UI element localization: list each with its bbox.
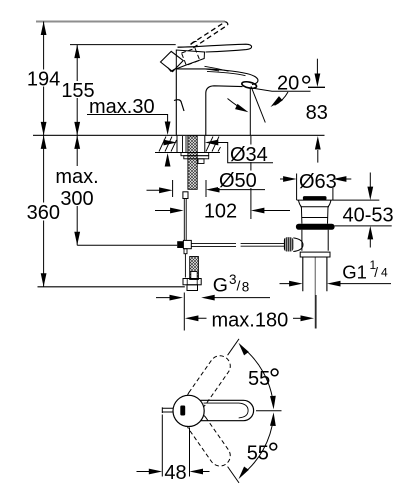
degree ring for upper 55	[271, 369, 278, 376]
label Ø63	[298, 171, 337, 193]
rubber seal washer (dark)	[296, 224, 335, 230]
dashed lever position down 55	[183, 409, 234, 470]
raised lever (dashed)	[191, 22, 228, 48]
pop-up rod to drain: clevis cross	[177, 241, 183, 248]
spout axis extension below deck	[250, 136, 252, 219]
upper axis extension line	[228, 339, 239, 355]
horizontal axis line right	[256, 410, 282, 412]
counter deck bottom line	[155, 152, 220, 154]
max.180 right arrow	[293, 317, 309, 319]
svg-text:8: 8	[242, 280, 250, 295]
dimension 40-53 reference lines	[333, 200, 392, 226]
svg-text:Ø34: Ø34	[230, 144, 268, 166]
pop-up plug cap (dark)	[303, 196, 327, 200]
max.30 underline and leader arrow to deck	[87, 115, 168, 126]
dimension 194 vertical line	[43, 22, 45, 136]
spout stub plan	[162, 408, 173, 412]
handle lever blade (solid, horizontal)	[178, 44, 252, 52]
dimension 155 vertical line	[76, 45, 78, 136]
coupling nut	[300, 252, 330, 257]
handle pivot body	[176, 47, 204, 69]
dimension 102 right extension and arrow	[257, 210, 291, 212]
360 bottom reference line	[38, 286, 185, 288]
svg-text:Ø50: Ø50	[219, 170, 257, 192]
mounting spacer lines left of shank	[183, 136, 187, 153]
threaded shank below deck	[188, 136, 197, 190]
degree ring for 20	[303, 76, 310, 83]
label max. 300	[54, 166, 101, 210]
max.180 left arrow	[190, 317, 207, 319]
handle base tilted square (solid)	[161, 51, 184, 71]
83 dimension bottom arrow	[317, 150, 319, 163]
svg-text:max.: max.	[55, 166, 98, 188]
G3/8 underline	[206, 297, 270, 299]
dimension G1 1/4 arrows	[280, 283, 298, 285]
svg-text:194: 194	[27, 68, 60, 90]
waste flange	[297, 200, 333, 224]
hole edge lines in counter	[177, 135, 205, 152]
dimension 102 left arrow	[155, 210, 179, 212]
dimension G3/8 arrows	[156, 297, 178, 299]
svg-text:G: G	[213, 275, 228, 297]
svg-text:/: /	[237, 278, 241, 294]
48 right arrow	[195, 471, 210, 473]
mounting washer	[181, 153, 209, 156]
knurled adjuster knob	[284, 237, 293, 251]
mounting nut	[184, 156, 209, 159]
tailpipe center line	[314, 258, 316, 329]
svg-text:300: 300	[60, 188, 93, 210]
handle base tilted square (dashed, raised position)	[182, 48, 200, 65]
svg-text:55: 55	[247, 443, 269, 465]
svg-text:G1: G1	[342, 262, 367, 283]
svg-text:55: 55	[248, 368, 270, 390]
deck hatching right	[206, 137, 221, 152]
lever blade plan view	[191, 400, 254, 420]
flexible supply hose (braided)	[190, 257, 199, 280]
water stream angle line	[251, 86, 265, 122]
svg-text:3: 3	[229, 272, 237, 287]
rod lower end	[184, 254, 186, 278]
label 48	[164, 462, 187, 485]
lower axis extension line	[228, 467, 239, 483]
spout aerator	[241, 81, 257, 90]
Ø63 arrows	[280, 178, 292, 180]
dimension max.180 extension lines	[184, 293, 316, 331]
pop-up rod clevis top	[183, 192, 188, 199]
hose nut	[183, 279, 201, 285]
20-degree reference line from spout tip	[252, 88, 311, 91]
pop-up rod	[184, 199, 186, 241]
faucet body outline	[176, 69, 242, 135]
40-53 top arrow	[369, 173, 371, 189]
deck hatching left	[159, 137, 177, 152]
svg-text:/: /	[374, 265, 378, 280]
spout top parallel edge	[207, 71, 246, 75]
upper 55 arc	[241, 347, 273, 405]
dashed lever position up 55	[183, 352, 234, 413]
dimension 48 extension lines	[162, 415, 189, 477]
body cap curves	[205, 66, 229, 71]
max.30 hook flag	[174, 100, 184, 111]
label 155	[61, 80, 95, 102]
dimension Ø50 extension lines	[173, 180, 206, 197]
nut tab	[198, 159, 204, 164]
svg-text:Ø63: Ø63	[299, 171, 337, 193]
pop-up waste: Ø63 extension lines	[297, 174, 333, 201]
degree ring for lower 55	[270, 443, 277, 450]
83 dimension top tick and arrow	[308, 86, 325, 88]
waste body below washer	[302, 230, 328, 251]
counter deck top line	[33, 134, 325, 136]
hose connector window	[191, 272, 197, 279]
svg-text:20: 20	[277, 72, 299, 94]
handle-top reference line (155 level)	[70, 44, 176, 46]
blade inner end line	[204, 403, 249, 418]
horizontal pop-up rod	[191, 243, 284, 246]
20-degree arc arrow right	[275, 92, 289, 105]
hose thread stub	[187, 285, 198, 291]
label 40-53	[342, 205, 394, 227]
clevis pin below	[184, 249, 187, 254]
label Ø50	[218, 170, 258, 192]
svg-text:40-53: 40-53	[343, 205, 394, 227]
lower 55 arc	[241, 417, 273, 475]
dimension 360 vertical line	[43, 135, 45, 286]
svg-text:102: 102	[204, 201, 237, 223]
faucet body circle	[173, 395, 204, 426]
dimension Ø34 arrows	[166, 142, 172, 144]
faucet spout top	[176, 69, 258, 85]
svg-text:360: 360	[27, 202, 60, 224]
48 left arrow	[137, 471, 158, 473]
ball joint housing	[293, 238, 303, 252]
max height reference line (gray, top)	[36, 21, 225, 23]
40-53 bottom arrow	[369, 238, 371, 248]
Ø50 arrows and underline	[147, 189, 168, 191]
svg-text:max.30: max.30	[89, 96, 155, 118]
spout outlet vertical axis line	[249, 88, 251, 135]
aerator mark	[180, 406, 185, 416]
dimension max.300 vertical line	[76, 135, 78, 245]
label Ø34	[229, 144, 269, 166]
20-degree arc arrow left	[228, 99, 246, 111]
label 360	[27, 202, 60, 224]
svg-text:max.180: max.180	[212, 310, 289, 332]
label 194	[27, 68, 60, 90]
label 102	[201, 200, 241, 223]
svg-text:4: 4	[381, 266, 388, 280]
max.30 lower arrow below deck	[167, 156, 169, 165]
svg-text:83: 83	[306, 102, 328, 124]
tailpipe	[303, 257, 327, 291]
svg-text:48: 48	[164, 462, 186, 484]
max.300 bottom reference line (rod level)	[77, 244, 177, 246]
